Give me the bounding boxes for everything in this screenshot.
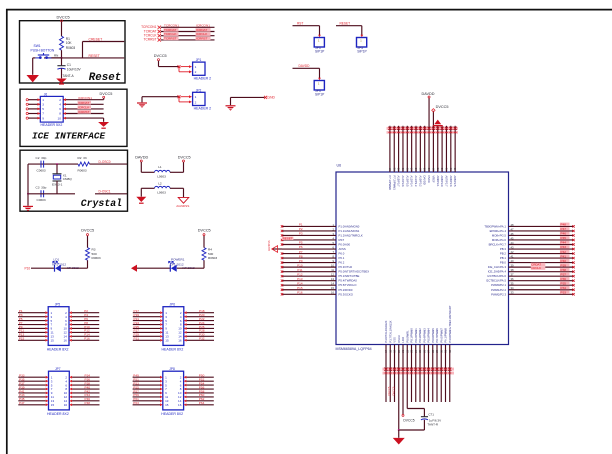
svg-text:L1: L1 — [158, 165, 162, 169]
wire U6 pin 35 net P35 — [509, 284, 574, 286]
svg-text:R0603: R0603 — [66, 46, 76, 50]
wire U6 top pin 59 — [411, 126, 413, 172]
wire U6 pin 11 net P11 — [282, 271, 336, 273]
wire JP5 pin 9 net P9 — [18, 327, 45, 329]
svg-text:MSM66589A_LQFP64: MSM66589A_LQFP64 — [336, 347, 372, 351]
svg-text:GND: GND — [268, 96, 276, 100]
svg-text:P5.3/SCKO: P5.3/SCKO — [339, 292, 354, 296]
svg-text:A12/P3.4: A12/P3.4 — [410, 176, 414, 188]
svg-text:P1.1/AN1/MON1: P1.1/AN1/MON1 — [339, 229, 360, 233]
wire JP8 pin 10 net P58 — [186, 392, 213, 394]
wire U6 bottom pin 31 — [445, 345, 447, 403]
wire U6 top pin 49 — [454, 126, 456, 172]
svg-text:P11: P11 — [297, 268, 302, 272]
svg-text:R2 33: R2 33 — [78, 156, 87, 160]
sheet border top — [6, 9, 612, 11]
svg-text:10: 10 — [331, 264, 334, 268]
svg-text:15: 15 — [331, 286, 334, 290]
wire to ground (U6 bottom) — [398, 430, 400, 438]
svg-text:R0603: R0603 — [78, 168, 87, 172]
svg-text:RN: RN — [54, 54, 58, 58]
wire U6 pin 43 net P43 — [509, 248, 574, 250]
svg-text:TCRRST: TCRRST — [164, 36, 177, 40]
wire JP8 pin 9 net P57 — [133, 392, 160, 394]
header JP6 8x2 — [163, 307, 184, 346]
svg-text:TB0GPWM+PA.1: TB0GPWM+PA.1 — [484, 224, 506, 228]
svg-text:41: 41 — [511, 254, 514, 258]
power DVCC5 (led) — [87, 234, 89, 236]
wire JP5 pin 1 net P1 — [18, 312, 45, 314]
svg-text:P8.5/PWM4: P8.5/PWM4 — [427, 328, 431, 343]
svg-text:ICRCON1: ICRCON1 — [78, 96, 92, 100]
svg-text:Crystal: Crystal — [81, 198, 122, 209]
svg-text:500: 500 — [208, 252, 213, 256]
svg-text:L2: L2 — [158, 181, 162, 185]
svg-text:P12: P12 — [297, 272, 303, 276]
svg-text:2: 2 — [195, 70, 197, 74]
svg-text:SIP1P: SIP1P — [357, 50, 367, 54]
wire to LED LD1 — [31, 267, 55, 269]
wire U6 bottom pin 18 — [389, 345, 391, 403]
svg-text:D-OSC0: D-OSC0 — [99, 160, 111, 164]
wire JP5 pin 2 net P2 — [72, 312, 99, 314]
mcu U6 body — [336, 172, 509, 345]
wire U6 pin 14 net P14 — [282, 284, 336, 286]
svg-text:DVCC5: DVCC5 — [198, 229, 211, 233]
svg-text:AGNDSS: AGNDSS — [176, 204, 189, 208]
svg-text:P42: P42 — [561, 250, 567, 254]
wire JP8 pin 15 net P63 — [133, 404, 160, 406]
wire JP6 pin 8 net P24 — [187, 324, 214, 326]
svg-text:HEADER 5X2: HEADER 5X2 — [41, 123, 63, 127]
wire U6 bottom pin 17 — [385, 345, 387, 403]
power DAVDD (U6 top) — [428, 98, 430, 128]
header JP8 8x2 — [163, 371, 184, 410]
ground (ICE) — [103, 118, 105, 122]
wire JP5 pin 15 net P15 — [18, 339, 45, 341]
header JP3 SIP1P — [314, 38, 324, 48]
svg-text:MO8+PG.5: MO8+PG.5 — [492, 233, 507, 237]
wire JP8 pin 11 net P59 — [133, 396, 160, 398]
wire JP7 pin 9 net P41 — [18, 392, 45, 394]
wire U6 pin 1 net P1 — [282, 225, 336, 227]
svg-text:16: 16 — [63, 338, 67, 342]
capacitor C2 — [40, 161, 42, 168]
svg-text:P8.0/WRL: P8.0/WRL — [405, 330, 409, 343]
header JP2 — [181, 96, 190, 98]
wire JP8 pin 5 net P53 — [133, 384, 160, 386]
svg-text:P39: P39 — [561, 263, 567, 267]
svg-text:500: 500 — [92, 252, 97, 256]
wire U6 bottom pin 26 — [423, 345, 425, 403]
wire U6 bottom pin 23 — [411, 345, 413, 403]
svg-text:A05/P2.5: A05/P2.5 — [453, 176, 457, 188]
wire U6 bottom pin 22 — [406, 345, 408, 409]
svg-text:C3 30p: C3 30p — [36, 186, 47, 190]
net D-OSC0 — [90, 163, 128, 165]
svg-text:DVCC5: DVCC5 — [57, 14, 70, 19]
svg-text:RESET: RESET — [89, 54, 100, 58]
svg-text:HEADER 8X2: HEADER 8X2 — [161, 412, 183, 416]
svg-text:DVCC5: DVCC5 — [178, 156, 191, 160]
wire L1 to DVCC5 — [170, 171, 184, 173]
svg-text:P48: P48 — [85, 401, 91, 405]
svg-text:P47: P47 — [561, 227, 567, 231]
svg-text:SIP1P: SIP1P — [315, 50, 325, 54]
wire U6 top pin 57 — [419, 126, 421, 172]
wire JP8 pin 12 net P60 — [186, 396, 213, 398]
svg-text:P15: P15 — [297, 286, 303, 290]
svg-text:P3.6/TXL2/AN12X: P3.6/TXL2/AN12X — [384, 320, 388, 342]
svg-text:TCRRST: TCRRST — [144, 38, 157, 42]
svg-text:HEADER 8X2: HEADER 8X2 — [47, 412, 69, 416]
svg-text:DVCC5: DVCC5 — [436, 105, 449, 109]
svg-text:PB.2: PB.2 — [500, 252, 507, 256]
wire JP6 pin 1 net P17 — [133, 312, 160, 314]
svg-text:LDO: LDO — [401, 337, 405, 343]
wire U6 pin 16 net P16 — [282, 293, 336, 295]
svg-text:ICRRST: ICRRST — [196, 36, 208, 40]
svg-text:16: 16 — [178, 338, 182, 342]
bus entry band (U6 bottom) — [383, 368, 455, 371]
svg-text:DVCC5: DVCC5 — [392, 386, 396, 395]
svg-text:33: 33 — [511, 291, 514, 295]
svg-text:P7: P7 — [299, 250, 303, 254]
svg-text:1: 1 — [42, 98, 44, 102]
svg-text:5: 5 — [42, 107, 44, 111]
Crystal section box — [20, 150, 128, 211]
capacitor C1 — [61, 58, 63, 66]
wire U6 top pin 58 — [415, 126, 417, 172]
wire JP7 pin 12 net P44 — [72, 396, 99, 398]
header JP1 — [181, 66, 190, 68]
wire U6 pin 34 net P34 — [509, 289, 574, 291]
wire JP5 pin 16 net P16 — [72, 339, 99, 341]
svg-text:POWER1: POWER1 — [171, 257, 185, 261]
ground (crystal) — [23, 206, 33, 211]
svg-text:RST: RST — [297, 21, 303, 25]
svg-text:P16: P16 — [297, 290, 303, 294]
wire JP7 pin 6 net P38 — [72, 384, 99, 386]
svg-text:PWM1/P2.2: PWM1/P2.2 — [491, 288, 506, 292]
wire U6 top pin 54 — [432, 126, 434, 172]
svg-text:P45: P45 — [561, 236, 567, 240]
wire U6 pin 4 net RESET — [282, 239, 336, 241]
svg-text:DVCC5: DVCC5 — [154, 54, 167, 58]
svg-text:A08/P3.0: A08/P3.0 — [440, 176, 444, 188]
wire DVCC5 to R1 — [61, 22, 63, 36]
svg-text:P36: P36 — [561, 277, 567, 281]
wire U6 bottom pin 29 — [436, 345, 438, 403]
svg-text:PWM0/P2.1: PWM0/P2.1 — [491, 283, 506, 287]
svg-text:P8: P8 — [299, 254, 303, 258]
svg-text:HEADER 8X2: HEADER 8X2 — [162, 347, 184, 351]
svg-text:ICE INTERFACE: ICE INTERFACE — [32, 131, 106, 142]
svg-text:P10: P10 — [297, 263, 303, 267]
wire JP5 pin 10 net P10 — [72, 327, 99, 329]
wire U6 pin 44 net P44 — [509, 244, 574, 246]
svg-text:ICRDAT: ICRDAT — [78, 101, 89, 105]
svg-text:15: 15 — [51, 338, 55, 342]
wire U6 bottom pin 21 — [402, 345, 404, 415]
svg-text:P3: P3 — [299, 232, 303, 236]
wire U6 pin 47 net P47 — [509, 230, 574, 232]
net ICRRST — [78, 110, 92, 114]
svg-text:P1.0/AN0/MON0: P1.0/AN0/MON0 — [339, 224, 360, 228]
Reset section box — [20, 21, 126, 83]
wire U6 pin 33 net P33 — [509, 293, 574, 295]
LED LD1 — [54, 265, 56, 272]
svg-text:P3.7/TXL1/AN13X: P3.7/TXL1/AN13X — [388, 320, 392, 342]
svg-text:P34: P34 — [561, 286, 567, 290]
svg-text:JP5: JP5 — [55, 303, 61, 307]
wire JP6 pin 12 net P28 — [187, 331, 214, 333]
svg-text:KP1-2012: KP1-2012 — [52, 262, 66, 266]
svg-text:1: 1 — [195, 65, 197, 69]
wire U6 pin 15 net P15 — [282, 289, 336, 291]
svg-text:R0603: R0603 — [92, 256, 101, 260]
wire JP5 pin 8 net P8 — [72, 324, 99, 326]
net CRESET — [83, 41, 125, 43]
wire crystal top rail — [28, 163, 78, 165]
net GND stub — [226, 105, 236, 110]
wire JP8 pin 16 net P64 — [186, 404, 213, 406]
sheet border left — [6, 9, 8, 454]
header J6 5x2 — [40, 96, 63, 122]
net ICRDAT — [78, 101, 92, 105]
svg-text:40: 40 — [511, 259, 514, 263]
svg-text:2: 2 — [59, 98, 61, 102]
wire U6 pin 46 net P46 — [509, 234, 574, 236]
wire JP6 pin 5 net P21 — [133, 320, 160, 322]
svg-text:A15/P3.7: A15/P3.7 — [397, 176, 401, 188]
wire JP6 pin 16 net P32 — [187, 339, 214, 341]
svg-text:MO8+PG.6: MO8+PG.6 — [492, 238, 507, 242]
wire JP5 pin 4 net P4 — [72, 316, 99, 318]
wire JP6 pin 9 net P25 — [133, 327, 160, 329]
svg-text:16: 16 — [331, 291, 334, 295]
wire U6 pin 37 net P37 — [509, 275, 574, 277]
svg-text:ICE_CLK/PA.3: ICE_CLK/PA.3 — [488, 265, 507, 269]
wire left rail down — [27, 164, 29, 206]
header JP4 SIP1P — [314, 81, 324, 91]
wire U6 bottom pin 27 — [428, 345, 430, 403]
resistor R3 — [86, 248, 90, 261]
wire U6 pin 48 net P48 — [509, 225, 574, 227]
wire JP5 pin 3 net P3 — [18, 316, 45, 318]
wire R4 to DVCC5 — [203, 236, 205, 248]
svg-text:DVCC5: DVCC5 — [387, 386, 391, 395]
ground (filter) — [136, 197, 146, 202]
wire JP7 pin 8 net P40 — [72, 388, 99, 390]
wire JP8 pin 6 net P54 — [186, 384, 213, 386]
svg-text:JP2: JP2 — [196, 88, 202, 92]
wire JP7 pin 15 net P47 — [18, 404, 45, 406]
power DVCC5 (led) — [203, 234, 205, 236]
wire U6 pin 40 net P40 — [509, 262, 574, 264]
wire U6 pin 2 net P2 — [282, 230, 336, 232]
svg-text:C0603: C0603 — [37, 168, 46, 172]
svg-text:P35: P35 — [561, 281, 567, 285]
svg-text:P5.4/TWRDA0: P5.4/TWRDA0 — [339, 279, 358, 283]
svg-text:12: 12 — [331, 273, 334, 277]
svg-text:P6.1: P6.1 — [339, 256, 345, 260]
svg-text:C2 30p: C2 30p — [36, 156, 47, 160]
svg-text:J6: J6 — [44, 92, 48, 96]
svg-text:A13/P3.5: A13/P3.5 — [405, 176, 409, 188]
wire U6 pin 42 net P42 — [509, 253, 574, 255]
inductor L1 — [155, 170, 171, 172]
ground (under C1) — [56, 79, 67, 84]
svg-text:P6.3/VTLD: P6.3/VTLD — [339, 265, 353, 269]
svg-text:DAVDD: DAVDD — [299, 64, 311, 68]
wire U6 top pin 51 — [445, 126, 447, 172]
svg-text:A07/P2.7: A07/P2.7 — [444, 176, 448, 188]
node RN junction — [61, 57, 63, 59]
svg-text:ICRRST: ICRRST — [78, 110, 90, 114]
svg-text:P47: P47 — [19, 401, 25, 405]
capacitor C3 — [40, 190, 42, 197]
svg-text:2: 2 — [195, 100, 197, 104]
svg-text:P13: P13 — [297, 277, 303, 281]
svg-text:P8.3/PWM2: P8.3/PWM2 — [418, 328, 422, 343]
svg-text:P8.2/PWM1: P8.2/PWM1 — [414, 328, 418, 343]
wire JP8 pin 7 net P55 — [133, 388, 160, 390]
svg-text:RESET: RESET — [340, 21, 351, 25]
svg-text:P8.1/PWM0: P8.1/PWM0 — [410, 328, 414, 343]
wire JP6 pin 4 net P20 — [187, 316, 214, 318]
svg-text:4: 4 — [59, 103, 61, 107]
wire SW1 left to ground — [33, 57, 36, 59]
svg-text:D-OSC1: D-OSC1 — [99, 190, 111, 194]
power arrow (POWER led) — [131, 265, 137, 272]
svg-text:AVSS: AVSS — [339, 247, 346, 251]
svg-text:RESET: RESET — [283, 236, 293, 240]
wire JP7 pin 10 net P42 — [72, 392, 99, 394]
wire U6 top pin 64 — [389, 126, 391, 172]
svg-text:LD1: LD1 — [54, 257, 60, 261]
svg-text:P33: P33 — [561, 290, 567, 294]
wire U6 top pin 61 — [402, 126, 404, 172]
svg-text:3: 3 — [42, 103, 44, 107]
power flag (U6 top) — [434, 120, 441, 125]
svg-text:DAVDD: DAVDD — [423, 176, 427, 185]
wire U6 pin 3 net P3 — [282, 234, 336, 236]
svg-text:8: 8 — [59, 112, 61, 116]
svg-text:TANT-A: TANT-A — [63, 74, 75, 78]
svg-text:C0603: C0603 — [37, 198, 46, 202]
svg-text:I2CTBCU/PA.6: I2CTBCU/PA.6 — [487, 274, 506, 278]
LED POWER1 — [169, 265, 171, 272]
wire JP7 pin 1 net P33 — [18, 376, 45, 378]
svg-text:C71: C71 — [428, 412, 434, 416]
svg-text:44: 44 — [511, 241, 514, 245]
wire crystal bottom rail — [28, 193, 75, 195]
svg-text:15: 15 — [51, 403, 55, 407]
svg-text:I2CTBCLK/PA.5: I2CTBCLK/PA.5 — [486, 279, 506, 283]
wire JP6 pin 11 net P27 — [133, 331, 160, 333]
node ground junction — [398, 429, 400, 431]
svg-text:37: 37 — [511, 273, 514, 277]
wire U6 bottom pin 20 — [398, 345, 400, 431]
wire L2 left to ground — [141, 187, 154, 189]
svg-text:10K: 10K — [66, 41, 73, 45]
resistor R2 — [78, 162, 90, 166]
net RESET — [44, 57, 124, 59]
svg-text:ICRCLK: ICRCLK — [78, 105, 90, 109]
svg-text:34: 34 — [511, 286, 514, 290]
svg-text:P4.6/PWM4+TBEX1/INT3/ADT: P4.6/PWM4+TBEX1/INT3/ADT — [448, 305, 452, 342]
wire ground to JP2 — [141, 97, 143, 103]
wire U6 bottom pin 32 — [449, 345, 451, 403]
wire JP7 pin 7 net P39 — [18, 388, 45, 390]
svg-text:13: 13 — [331, 277, 334, 281]
wire U6 pin 13 net P13 — [282, 280, 336, 282]
svg-text:DAVDD: DAVDD — [135, 156, 148, 160]
wire JP6 pin 13 net P29 — [133, 335, 160, 337]
wire JP5 pin 12 net P12 — [72, 331, 99, 333]
ground (U6 bottom) — [393, 438, 405, 445]
svg-text:SW1: SW1 — [34, 44, 41, 48]
svg-text:L0603: L0603 — [157, 190, 166, 194]
svg-text:A10/P3.2: A10/P3.2 — [418, 176, 422, 188]
svg-text:P31: P31 — [134, 337, 140, 341]
ground (JP2) — [137, 102, 147, 107]
svg-text:9: 9 — [42, 116, 44, 120]
svg-text:P6.0: P6.0 — [339, 252, 345, 256]
wire U6 top pin 60 — [406, 126, 408, 172]
svg-text:PB.3: PB.3 — [500, 247, 507, 251]
wire C71 to ground — [423, 420, 425, 430]
wire U6 pin 36 net P36 — [509, 280, 574, 282]
ground AGND — [178, 197, 189, 203]
svg-text:P48: P48 — [561, 223, 567, 227]
svg-text:6: 6 — [59, 107, 61, 111]
wire JP7 pin 11 net P43 — [18, 396, 45, 398]
ICE INTERFACE section box — [20, 89, 127, 146]
svg-text:P38: P38 — [561, 268, 567, 272]
wire JP6 pin 2 net P18 — [187, 312, 214, 314]
svg-text:JP8: JP8 — [169, 367, 175, 371]
svg-text:CRCLK: CRCLK — [531, 266, 541, 270]
svg-text:JP7: JP7 — [55, 367, 61, 371]
svg-text:TANT-R: TANT-R — [427, 423, 438, 427]
svg-text:ICE_DA5/PA.4: ICE_DA5/PA.4 — [488, 270, 507, 274]
svg-text:35: 35 — [511, 282, 514, 286]
svg-text:CRESET: CRESET — [89, 38, 103, 42]
wire U6 pin 8 net P8 — [282, 257, 336, 259]
svg-text:P44: P44 — [561, 241, 567, 245]
svg-text:DVCC: DVCC — [427, 176, 431, 184]
wire U6 bottom pin 28 — [432, 345, 434, 403]
svg-text:L0603: L0603 — [157, 174, 166, 178]
svg-text:A06/P2.6: A06/P2.6 — [449, 176, 453, 188]
wire LED to R3 — [61, 267, 87, 269]
resistor R1 — [60, 36, 64, 50]
wire U6 pin 9 net P9 — [282, 262, 336, 264]
svg-text:42: 42 — [511, 250, 514, 254]
svg-text:P5.2/RXD0: P5.2/RXD0 — [339, 288, 353, 292]
svg-text:P63: P63 — [133, 401, 139, 405]
wire JP6 pin 3 net P19 — [133, 316, 160, 318]
svg-text:A09/P3.1: A09/P3.1 — [436, 176, 440, 188]
svg-text:7: 7 — [42, 112, 44, 116]
net ICRCLK — [78, 105, 92, 109]
svg-text:VSS: VSS — [393, 337, 397, 343]
svg-text:A14/P3.6: A14/P3.6 — [401, 176, 405, 188]
svg-text:P64: P64 — [199, 401, 205, 405]
wire U6 top pin 62 — [398, 126, 400, 172]
